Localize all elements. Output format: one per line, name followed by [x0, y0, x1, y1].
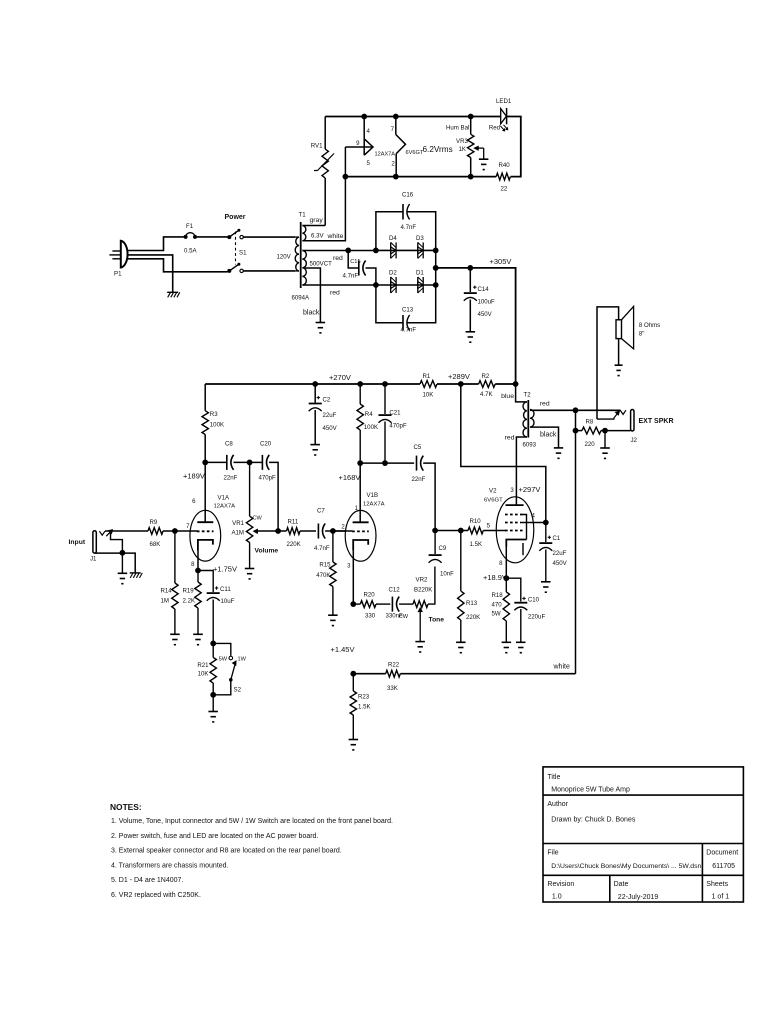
svg-text:C20: C20 [260, 441, 272, 448]
svg-text:22nF: 22nF [412, 476, 426, 483]
svg-text:6093: 6093 [523, 442, 537, 449]
node V1B cathode R20 [350, 601, 356, 607]
svg-text:LED1: LED1 [496, 98, 512, 105]
svg-text:C8: C8 [225, 441, 233, 448]
svg-text:C11: C11 [220, 586, 231, 593]
svg-text:R14: R14 [161, 588, 173, 595]
label +1.45V [331, 645, 355, 654]
svg-text:220K: 220K [287, 541, 301, 548]
svg-text:S1: S1 [239, 250, 247, 257]
potentiometer VR1 Volume [231, 462, 278, 568]
capacitor C20 [250, 441, 279, 532]
svg-text:12AX7A: 12AX7A [375, 152, 396, 158]
svg-text:D3: D3 [416, 235, 424, 242]
wire R1-R2 [437, 383, 479, 385]
wire P1 to F1 [128, 237, 184, 251]
capacitor C16 [401, 192, 417, 232]
wire R3 to V1A plate [204, 462, 206, 522]
capacitor C14 [464, 265, 495, 332]
label black T2 [540, 432, 557, 439]
svg-text:D4: D4 [389, 235, 397, 242]
ground C10 [516, 642, 526, 652]
capacitor C7 [314, 508, 345, 553]
label +1.75V [213, 565, 237, 574]
wire R4 to V1B plate [359, 463, 361, 522]
wire R22 to white [400, 673, 575, 675]
svg-text:4. Transformers are chassis m: 4. Transformers are chassis mounted. [111, 862, 229, 869]
svg-text:V1A: V1A [218, 494, 230, 501]
ground R23 [349, 740, 359, 750]
svg-text:EXT SPKR: EXT SPKR [639, 418, 674, 425]
wire S1 to T1 bottom [243, 270, 295, 272]
resistor R4 [357, 381, 378, 463]
svg-text:+189V: +189V [183, 472, 205, 481]
potentiometer VR2 Tone [399, 567, 445, 642]
svg-text:D1: D1 [416, 270, 424, 277]
ground R8 [600, 431, 610, 459]
svg-text:V2: V2 [489, 488, 497, 495]
label pin1 V1B [355, 505, 359, 512]
ground C1 [541, 582, 551, 592]
node spkr red [573, 407, 579, 413]
node bridge out [433, 265, 439, 271]
svg-text:Revision: Revision [547, 881, 574, 888]
ground R19 [193, 634, 203, 644]
svg-text:2: 2 [391, 161, 395, 168]
svg-text:470K: 470K [316, 572, 330, 579]
svg-text:+305V: +305V [490, 257, 512, 266]
svg-text:R9: R9 [150, 519, 158, 526]
svg-text:4.7nF: 4.7nF [314, 545, 330, 552]
svg-text:Monoprice 5W Tube Amp: Monoprice 5W Tube Amp [551, 787, 630, 794]
node bridge TL [373, 248, 379, 254]
wire J2 bottom [576, 430, 583, 432]
svg-text:450V: 450V [553, 560, 568, 567]
ground T1 CT [316, 323, 326, 333]
diode D3 [416, 235, 424, 258]
svg-text:Date: Date [614, 881, 629, 888]
speaker 8 ohm [597, 306, 660, 419]
wire T2 secondary black [530, 427, 559, 448]
wire F1 to S1 [197, 236, 228, 238]
svg-text:VR2: VR2 [416, 577, 428, 584]
svg-text:1M: 1M [161, 598, 169, 605]
plug P1 [109, 241, 127, 278]
node +289V [458, 381, 464, 387]
node C11 R21 [210, 641, 216, 647]
label pin8 V2 [499, 560, 503, 567]
label pin4 V2 [532, 513, 536, 520]
resistor R9 [148, 519, 163, 548]
node J1 ground [120, 550, 126, 556]
svg-text:C21: C21 [389, 410, 401, 417]
capacitor C5 [412, 444, 436, 531]
svg-text:450V: 450V [478, 311, 493, 318]
ground T2 black [554, 448, 563, 458]
svg-text:0.5A: 0.5A [184, 248, 197, 255]
label blue [501, 393, 514, 400]
triode V1B [345, 510, 376, 561]
wire heater top bus right [507, 117, 521, 177]
transformer T1 [277, 212, 333, 302]
wire V2 screen to +289V [461, 384, 546, 523]
svg-text:R18: R18 [492, 592, 504, 599]
svg-text:Document: Document [706, 850, 738, 857]
label gray [310, 217, 324, 224]
svg-text:12AX7A: 12AX7A [214, 504, 236, 510]
heater V1 12AX7A [343, 114, 396, 180]
label red T2 secondary [540, 401, 550, 408]
svg-text:500VCT: 500VCT [310, 261, 333, 268]
diode D2 [389, 270, 397, 293]
title block [543, 767, 743, 902]
svg-text:C1: C1 [553, 535, 561, 542]
svg-text:red: red [505, 435, 515, 442]
diode D4 [389, 235, 397, 258]
wire T1 center tap [305, 268, 320, 323]
ground VR2 wiper [415, 642, 425, 652]
ground J1 [118, 553, 128, 584]
label +168V [339, 473, 361, 482]
node C8 C20 VR1 [247, 460, 253, 466]
resistor R13 [458, 531, 481, 643]
resistor R19 [183, 571, 202, 635]
capacitor C21 [379, 381, 407, 463]
node +168V [357, 460, 363, 466]
svg-text:CW: CW [253, 516, 263, 522]
capacitor C9 [429, 531, 455, 578]
resistor R8 [582, 419, 631, 449]
svg-text:red: red [540, 401, 550, 408]
resistor R22 [386, 662, 401, 693]
resistor R2 [479, 373, 496, 398]
label red bottom [330, 290, 340, 297]
svg-text:Tone: Tone [429, 617, 445, 624]
svg-text:R10: R10 [470, 518, 482, 525]
node C7 R15 [330, 528, 336, 534]
svg-text:6.3V: 6.3V [311, 233, 324, 240]
wire T2 secondary red [530, 409, 621, 411]
svg-text:+289V: +289V [448, 372, 470, 381]
wire bridge box bottom-left [376, 285, 403, 323]
label pin7 V1A [186, 523, 190, 530]
svg-text:10K: 10K [198, 671, 209, 678]
svg-text:C10: C10 [528, 597, 540, 604]
svg-text:C12: C12 [389, 587, 401, 594]
ground speaker [615, 365, 623, 375]
svg-text:611705: 611705 [712, 863, 735, 870]
node blue [513, 381, 519, 387]
diode D1 [416, 270, 424, 293]
capacitor C15 [343, 248, 376, 286]
wire bridge top row [376, 249, 436, 251]
svg-text:1W: 1W [238, 657, 247, 663]
svg-text:A1M: A1M [231, 530, 244, 537]
transformer T2 [523, 392, 537, 449]
svg-text:22uF: 22uF [553, 550, 567, 557]
svg-text:10uF: 10uF [221, 598, 235, 605]
svg-text:J1: J1 [90, 556, 97, 563]
label black T1 [303, 310, 320, 317]
ground R21 [208, 695, 218, 722]
node bridge TR [433, 248, 439, 254]
node R8 right [602, 428, 608, 434]
svg-text:12AX7A: 12AX7A [363, 502, 385, 508]
svg-text:8 Ohms: 8 Ohms [639, 322, 660, 329]
svg-text:4.7nF: 4.7nF [343, 273, 359, 280]
notes text [110, 802, 393, 899]
svg-text:220uF: 220uF [528, 614, 546, 621]
ground R18 [502, 642, 512, 652]
svg-text:5W: 5W [492, 611, 501, 618]
wire bridge box top-right [408, 212, 436, 251]
resistor R20 [353, 592, 390, 620]
svg-text:1 of 1: 1 of 1 [712, 893, 730, 900]
svg-text:100uF: 100uF [478, 299, 496, 306]
svg-text:2.2K: 2.2K [183, 598, 196, 605]
thermistor RV1 [311, 117, 334, 226]
svg-text:D:\Users\Chuck Bones\My Docume: D:\Users\Chuck Bones\My Documents\ ... 5… [551, 863, 701, 870]
capacitor C12 [386, 587, 414, 620]
label red T2 primary [505, 435, 515, 442]
chassis ground J1 [130, 573, 143, 578]
label 6.2Vrms [423, 145, 453, 154]
label V1A [218, 494, 230, 501]
svg-text:1.0: 1.0 [552, 893, 562, 900]
resistor R15 [316, 531, 336, 615]
svg-text:R8: R8 [586, 419, 594, 426]
svg-text:R22: R22 [388, 662, 400, 669]
svg-text:blue: blue [501, 393, 514, 400]
svg-text:6. VR2 replaced with C250K.: 6. VR2 replaced with C250K. [111, 892, 201, 899]
wire bridge bottom row [376, 284, 436, 286]
svg-text:1K: 1K [459, 146, 466, 153]
node R10 R13 [458, 528, 464, 534]
switch S2 [213, 643, 246, 694]
wire T1 gray [302, 225, 325, 227]
svg-text:R4: R4 [365, 411, 373, 418]
label V1B [367, 492, 379, 499]
svg-text:gray: gray [310, 217, 324, 224]
resistor R10 [468, 518, 506, 548]
svg-text:C5: C5 [414, 444, 422, 451]
svg-text:2: 2 [341, 524, 345, 531]
label pin5 V2 [487, 523, 491, 530]
label pin6 V1A [192, 498, 196, 505]
wire V1A cathode [197, 551, 199, 571]
svg-text:22nF: 22nF [224, 475, 238, 482]
svg-text:+270V: +270V [329, 373, 351, 382]
ground R14 [170, 634, 180, 644]
svg-text:VR3: VR3 [456, 138, 468, 145]
chassis ground P1 [167, 292, 180, 297]
wire blue to T2 [516, 384, 527, 402]
resistor R1 [420, 373, 437, 399]
svg-text:3. External speaker connector: 3. External speaker connector and R8 are… [111, 848, 342, 855]
svg-text:white: white [553, 664, 570, 671]
svg-text:10nF: 10nF [440, 571, 454, 578]
capacitor C10 [506, 578, 545, 642]
svg-text:B220K: B220K [414, 587, 432, 594]
node C5 C9 [432, 528, 438, 534]
ground R13 [456, 642, 466, 652]
ground VR1 [245, 569, 255, 579]
wire R22 row left [353, 673, 385, 675]
svg-text:Input: Input [69, 539, 86, 546]
node bridge BL [373, 282, 379, 288]
svg-text:VR1: VR1 [232, 520, 244, 527]
svg-text:C7: C7 [317, 508, 325, 515]
wire plate row V1B [360, 462, 414, 464]
svg-text:Hum Bal: Hum Bal [446, 125, 469, 132]
svg-text:C16: C16 [402, 192, 414, 199]
svg-text:22uF: 22uF [323, 412, 337, 419]
resistor R14 [161, 531, 179, 634]
svg-text:Author: Author [547, 801, 568, 808]
svg-text:R3: R3 [210, 411, 218, 418]
jack J2 EXT SPKR [597, 410, 674, 445]
svg-text:4.7nF: 4.7nF [401, 224, 417, 231]
svg-text:NOTES:: NOTES: [110, 802, 142, 812]
svg-text:450V: 450V [323, 425, 338, 432]
svg-text:C15: C15 [350, 259, 360, 265]
wire bridge mid right [435, 250, 437, 285]
node R21 bottom [210, 692, 216, 698]
svg-text:R15: R15 [319, 562, 331, 569]
svg-text:S2: S2 [234, 687, 242, 694]
svg-text:68K: 68K [150, 541, 161, 548]
svg-text:F1: F1 [186, 223, 194, 230]
svg-text:R20: R20 [364, 592, 376, 599]
svg-text:RV1: RV1 [311, 143, 323, 150]
node V1A grid [172, 528, 178, 534]
svg-text:C9: C9 [439, 545, 447, 552]
svg-text:6V6GT: 6V6GT [484, 498, 503, 504]
svg-text:22: 22 [501, 186, 508, 193]
wire heater top bus [325, 116, 500, 118]
connector J1 Input [69, 530, 136, 573]
svg-text:white: white [327, 233, 344, 240]
svg-text:6V6GT: 6V6GT [406, 150, 424, 156]
label pin2 V1B [341, 524, 345, 531]
fuse F1 [184, 223, 198, 255]
triode V1A [190, 510, 221, 561]
resistor R18 [492, 578, 510, 642]
svg-text:+1.45V: +1.45V [331, 645, 355, 654]
svg-text:100K: 100K [364, 424, 378, 431]
label red top [333, 255, 343, 262]
ground R15 [328, 615, 338, 625]
capacitor C11 [198, 571, 235, 644]
wire P1 bottom to S1 [128, 259, 228, 272]
svg-text:22-July-2019: 22-July-2019 [618, 894, 659, 901]
wire T2 primary red [516, 437, 527, 505]
node R22 left [350, 671, 356, 677]
node +189V [202, 460, 208, 466]
svg-text:120V: 120V [277, 254, 292, 261]
svg-text:+18.9V: +18.9V [483, 573, 507, 582]
svg-text:+1.75V: +1.75V [213, 565, 237, 574]
resistor R21 [197, 643, 216, 694]
wire S1 to T1 top [243, 236, 295, 238]
svg-text:D2: D2 [389, 270, 397, 277]
node V2 screen [543, 520, 549, 526]
label +18.9V [483, 573, 507, 582]
svg-text:R2: R2 [482, 373, 490, 380]
svg-text:C13: C13 [402, 307, 414, 314]
wire T1 red top [302, 250, 376, 252]
node R8 left [573, 428, 579, 434]
heater V2 6V6GT [391, 114, 424, 180]
svg-text:Title: Title [547, 774, 560, 781]
svg-text:6094A: 6094A [292, 295, 311, 302]
svg-text:100K: 100K [210, 422, 224, 429]
wire V1B cathode [352, 551, 354, 604]
svg-text:Sheets: Sheets [706, 881, 728, 888]
svg-text:CW: CW [399, 614, 409, 620]
svg-text:File: File [547, 850, 558, 857]
wire +305V [436, 268, 516, 384]
svg-text:33K: 33K [387, 685, 398, 692]
LED LED1 [489, 98, 512, 132]
wire R9 to grid [163, 530, 197, 532]
wire bridge box bottom-right [408, 285, 436, 323]
label V1B type [363, 502, 385, 508]
svg-text:P1: P1 [114, 271, 122, 278]
svg-text:220K: 220K [466, 614, 480, 621]
capacitor C2 [309, 381, 338, 445]
svg-text:R19: R19 [183, 588, 195, 595]
label +189V [183, 472, 205, 481]
resistor R23 [350, 674, 370, 740]
svg-text:R13: R13 [466, 600, 478, 607]
node V1A cathode [195, 568, 201, 574]
svg-text:8": 8" [639, 331, 645, 338]
resistor R11 [278, 519, 316, 549]
label white [553, 664, 570, 671]
switch S1 [227, 229, 247, 273]
wire feedback down [575, 410, 577, 673]
svg-text:5. D1 - D4 are 1N4007.: 5. D1 - D4 are 1N4007. [111, 877, 183, 884]
label white 6.3V [327, 233, 344, 240]
svg-text:R40: R40 [499, 162, 511, 169]
wire bridge box top-left [376, 212, 403, 251]
svg-text:Red: Red [489, 125, 500, 132]
svg-text:10K: 10K [423, 392, 434, 399]
svg-text:+168V: +168V [339, 473, 361, 482]
label pin3 V1B [347, 563, 351, 570]
svg-text:5W: 5W [219, 657, 228, 663]
ground C14 [466, 332, 476, 342]
wire heater bottom bus [345, 176, 496, 178]
label pin8 V1A [191, 561, 195, 568]
svg-text:red: red [333, 255, 343, 262]
label V1A type [214, 504, 236, 510]
capacitor C13 [401, 307, 417, 334]
svg-text:R1: R1 [423, 373, 431, 380]
svg-text:R21: R21 [197, 662, 209, 669]
wire +270V bus [205, 383, 420, 385]
svg-text:470: 470 [492, 602, 503, 609]
svg-text:4.7nF: 4.7nF [401, 327, 417, 334]
label pin3 V2 [510, 487, 514, 494]
svg-text:Volume: Volume [255, 548, 279, 555]
svg-text:C14: C14 [478, 286, 490, 293]
wire P1 middle to chassis [128, 255, 173, 292]
label +270V [329, 373, 351, 382]
svg-text:red: red [330, 290, 340, 297]
svg-text:C2: C2 [323, 397, 331, 404]
